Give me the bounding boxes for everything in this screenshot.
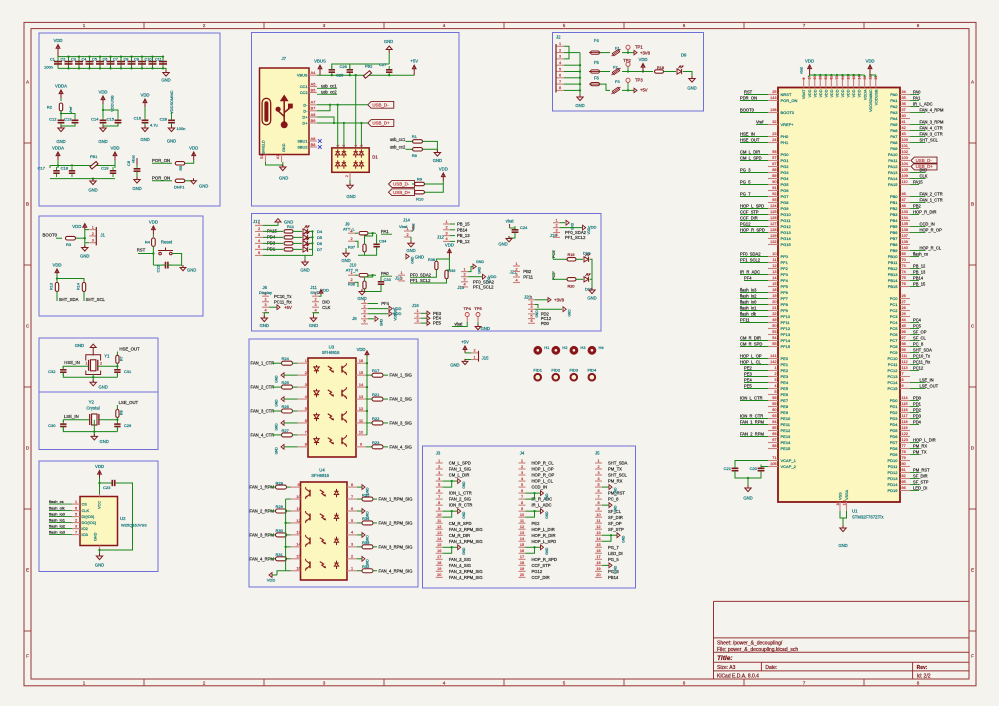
svg-text:R24: R24 — [282, 356, 290, 361]
svg-text:7: 7 — [559, 80, 561, 84]
svg-text:HOP_R_OP: HOP_R_OP — [920, 227, 943, 232]
svg-text:PC14: PC14 — [887, 380, 898, 385]
svg-text:74: 74 — [902, 270, 906, 274]
svg-text:137: 137 — [902, 234, 908, 238]
svg-text:R23: R23 — [372, 440, 380, 445]
svg-text:PB3: PB3 — [890, 212, 898, 217]
svg-text:GND: GND — [167, 139, 176, 144]
svg-text:2: 2 — [559, 48, 561, 52]
svg-text:13: 13 — [596, 531, 600, 535]
svg-text:GND: GND — [415, 254, 424, 259]
svg-text:8: 8 — [597, 501, 599, 505]
svg-text:PG14: PG14 — [781, 236, 792, 241]
svg-text:W25Q16JVSS: W25Q16JVSS — [121, 523, 147, 528]
svg-text:LSE_OUT: LSE_OUT — [119, 400, 139, 405]
svg-text:GND: GND — [498, 242, 507, 247]
svg-text:2: 2 — [416, 314, 418, 318]
svg-text:VDD: VDD — [140, 93, 149, 98]
svg-text:3: 3 — [597, 471, 599, 475]
svg-text:PE14: PE14 — [781, 440, 792, 445]
svg-text:CM_R_SPD: CM_R_SPD — [449, 521, 472, 526]
svg-text:PC6: PC6 — [890, 332, 899, 337]
svg-text:SFH6916: SFH6916 — [311, 473, 329, 478]
svg-text:PG11: PG11 — [781, 218, 792, 223]
svg-text:12: 12 — [437, 525, 441, 529]
svg-text:PG12: PG12 — [740, 221, 751, 226]
svg-text:R38: R38 — [428, 258, 435, 262]
svg-text:D7: D7 — [317, 247, 323, 252]
svg-text:H1: H1 — [544, 345, 550, 350]
svg-text:22: 22 — [772, 312, 776, 316]
svg-text:PB0: PB0 — [890, 194, 898, 199]
svg-text:PE2: PE2 — [532, 521, 541, 526]
svg-text:R30: R30 — [276, 528, 284, 533]
svg-text:29: 29 — [902, 312, 906, 316]
svg-text:8: 8 — [351, 483, 353, 487]
svg-text:J2: J2 — [556, 35, 561, 40]
svg-text:A7: A7 — [311, 101, 316, 105]
svg-text:D-: D- — [303, 108, 308, 113]
svg-text:65: 65 — [772, 426, 776, 430]
svg-text:60: 60 — [772, 408, 776, 412]
svg-text:TP5: TP5 — [474, 306, 482, 311]
svg-text:J7: J7 — [282, 56, 287, 61]
svg-text:C29: C29 — [124, 423, 132, 428]
svg-text:vbat: vbat — [455, 322, 464, 327]
svg-text:3: 3 — [515, 273, 517, 277]
svg-text:133: 133 — [902, 210, 908, 214]
svg-text:C4: C4 — [82, 57, 87, 61]
svg-text:GND: GND — [462, 481, 466, 489]
svg-text:F1: F1 — [615, 46, 620, 51]
svg-text:1: 1 — [85, 362, 87, 366]
svg-text:PC12: PC12 — [913, 365, 924, 370]
svg-text:4: 4 — [443, 23, 446, 28]
svg-text:PC11: PC11 — [888, 362, 898, 367]
svg-text:C25: C25 — [336, 73, 344, 78]
svg-text:10: 10 — [772, 252, 776, 256]
svg-text:Date:: Date: — [765, 665, 777, 671]
svg-text:FAN_3_RPM_SIG: FAN_3_RPM_SIG — [379, 544, 413, 549]
svg-text:126: 126 — [770, 216, 776, 220]
svg-text:28: 28 — [902, 306, 906, 310]
svg-text:PA12: PA12 — [888, 164, 898, 169]
svg-text:18: 18 — [437, 561, 441, 565]
svg-text:3: 3 — [463, 278, 465, 282]
svg-text:35: 35 — [902, 96, 906, 100]
svg-text:37: 37 — [902, 108, 906, 112]
svg-text:8: 8 — [305, 443, 307, 447]
svg-text:+5V: +5V — [640, 88, 648, 93]
svg-text:1: 1 — [83, 681, 86, 686]
svg-text:27: 27 — [902, 300, 906, 304]
svg-text:ION_R_CTR: ION_R_CTR — [740, 413, 763, 418]
svg-text:PB7: PB7 — [890, 236, 898, 241]
svg-text:GND: GND — [140, 137, 149, 142]
svg-text:PD5: PD5 — [890, 428, 899, 433]
svg-text:usb_cc2: usb_cc2 — [390, 145, 406, 150]
svg-text:GND: GND — [687, 86, 696, 91]
svg-text:IR_L_ADC: IR_L_ADC — [913, 101, 933, 106]
svg-text:SF_STP: SF_STP — [608, 527, 624, 532]
svg-text:HSE_OUT: HSE_OUT — [740, 137, 760, 142]
svg-text:VDD: VDD — [830, 89, 834, 97]
svg-text:GND: GND — [481, 326, 490, 331]
svg-text:PF11: PF11 — [523, 275, 533, 280]
svg-text:4: 4 — [515, 278, 517, 282]
svg-text:19: 19 — [520, 567, 524, 571]
svg-text:PB2: PB2 — [523, 269, 532, 274]
svg-text:Vref: Vref — [756, 119, 764, 124]
svg-text:C18: C18 — [61, 166, 69, 171]
svg-text:J16: J16 — [412, 303, 420, 308]
svg-text:B8: B8 — [311, 143, 316, 147]
svg-text:42: 42 — [902, 126, 906, 130]
svg-text:+5V: +5V — [284, 305, 292, 310]
svg-text:PF12: PF12 — [781, 326, 791, 331]
svg-text:PB14: PB14 — [457, 227, 468, 232]
svg-text:C28: C28 — [160, 117, 168, 122]
svg-text:flash_cs: flash_cs — [913, 251, 928, 256]
svg-text:GND: GND — [622, 535, 626, 543]
svg-text:U1: U1 — [852, 509, 858, 514]
svg-text:18: 18 — [772, 288, 776, 292]
svg-text:PA10: PA10 — [888, 152, 898, 157]
svg-text:DO(IO1): DO(IO1) — [82, 520, 97, 525]
svg-text:PF8: PF8 — [781, 302, 789, 307]
svg-text:16: 16 — [596, 549, 600, 553]
svg-text:GND: GND — [279, 176, 288, 181]
svg-text:GND: GND — [95, 563, 104, 568]
svg-text:6: 6 — [530, 319, 532, 323]
svg-text:CM_L_SPD: CM_L_SPD — [449, 461, 471, 466]
svg-text:62: 62 — [830, 76, 834, 80]
svg-text:VDDSDMMC: VDDSDMMC — [869, 89, 873, 112]
svg-text:4: 4 — [354, 145, 358, 147]
svg-text:VDD: VDD — [805, 59, 814, 64]
svg-text:CCF_STP: CCF_STP — [532, 563, 551, 568]
svg-text:D9: D9 — [681, 53, 687, 58]
svg-text:PB11: PB11 — [888, 260, 898, 265]
svg-text:5: 5 — [563, 681, 566, 686]
svg-text:CLK: CLK — [322, 305, 330, 310]
svg-text:F4: F4 — [594, 38, 600, 43]
svg-text:F2: F2 — [613, 65, 618, 70]
svg-text:19: 19 — [596, 567, 600, 571]
svg-text:111: 111 — [902, 354, 908, 358]
svg-text:96: 96 — [902, 330, 906, 334]
svg-text:10: 10 — [520, 513, 524, 517]
svg-text:106: 106 — [770, 462, 776, 466]
svg-text:20: 20 — [520, 573, 524, 577]
svg-text:3: 3 — [258, 233, 260, 237]
svg-text:2: 2 — [203, 681, 206, 686]
svg-text:FAN_1_CTR: FAN_1_CTR — [251, 361, 275, 366]
svg-text:PD7: PD7 — [890, 440, 899, 445]
svg-text:138: 138 — [770, 108, 776, 112]
svg-text:flash_io2: flash_io2 — [49, 524, 66, 529]
svg-text:PD10: PD10 — [887, 458, 898, 463]
svg-text:PE12: PE12 — [781, 428, 792, 433]
svg-text:9: 9 — [297, 483, 299, 487]
svg-text:98: 98 — [902, 342, 906, 346]
svg-text:PA13: PA13 — [888, 170, 898, 175]
svg-text:File: power_&_decoupling.kicad: File: power_&_decoupling.kicad_sch — [717, 647, 798, 653]
svg-text:H4: H4 — [598, 345, 604, 350]
svg-text:3: 3 — [351, 543, 353, 547]
svg-text:PD4: PD4 — [913, 419, 922, 424]
svg-text:2: 2 — [351, 555, 353, 559]
svg-text:16: 16 — [359, 359, 363, 363]
svg-text:12: 12 — [596, 525, 600, 529]
svg-text:1: 1 — [264, 292, 266, 296]
svg-text:PC1: PC1 — [890, 302, 899, 307]
svg-text:F3: F3 — [615, 79, 620, 84]
svg-text:R10: R10 — [416, 197, 424, 202]
svg-text:PA8: PA8 — [890, 140, 898, 145]
svg-text:SF_CL: SF_CL — [913, 335, 926, 340]
svg-text:113: 113 — [902, 366, 908, 370]
svg-text:PA15: PA15 — [888, 182, 898, 187]
svg-text:3: 3 — [264, 303, 266, 307]
svg-text:R36: R36 — [348, 283, 355, 287]
svg-text:PF4: PF4 — [781, 278, 789, 283]
svg-text:82: 82 — [902, 474, 906, 478]
svg-text:PG_5: PG_5 — [740, 179, 751, 184]
svg-text:12: 12 — [772, 264, 776, 268]
svg-text:PD3: PD3 — [913, 413, 922, 418]
svg-text:9: 9 — [902, 384, 904, 388]
svg-text:C27: C27 — [379, 62, 387, 67]
svg-text:FAN_1_RPM_SIG: FAN_1_RPM_SIG — [449, 539, 483, 544]
svg-text:vbat: vbat — [506, 219, 515, 224]
svg-text:R8: R8 — [120, 410, 124, 415]
svg-text:87: 87 — [772, 162, 776, 166]
svg-text:FAN_2_SIG: FAN_2_SIG — [449, 497, 471, 502]
svg-text:PC9: PC9 — [890, 350, 899, 355]
svg-text:FAN_4_SIG: FAN_4_SIG — [449, 563, 471, 568]
svg-text:PE5: PE5 — [744, 383, 752, 388]
svg-text:C13: C13 — [64, 117, 72, 122]
svg-text:HOP_L_OP: HOP_L_OP — [532, 467, 554, 472]
svg-text:PC12: PC12 — [887, 368, 898, 373]
svg-text:SBU1: SBU1 — [297, 139, 307, 144]
svg-text:PD13: PD13 — [887, 476, 898, 481]
svg-text:FAN_3_RPM_SIG: FAN_3_RPM_SIG — [449, 569, 483, 574]
svg-text:C34: C34 — [379, 238, 387, 243]
svg-text:D4: D4 — [317, 229, 323, 234]
svg-text:PE8: PE8 — [781, 404, 789, 409]
svg-text:15: 15 — [772, 282, 776, 286]
svg-text:PA15: PA15 — [913, 179, 923, 184]
svg-text:1: 1 — [400, 271, 402, 275]
svg-text:Crystal: Crystal — [86, 406, 99, 411]
svg-text:115: 115 — [902, 402, 908, 406]
svg-text:2: 2 — [305, 371, 307, 375]
svg-text:GND: GND — [275, 447, 279, 455]
svg-text:PC_8: PC_8 — [608, 497, 619, 502]
svg-text:HOP_R_DIR: HOP_R_DIR — [532, 533, 556, 538]
svg-text:7: 7 — [597, 495, 599, 499]
svg-text:5: 5 — [597, 483, 599, 487]
svg-text:flash_io0: flash_io0 — [740, 299, 757, 304]
svg-text:19: 19 — [437, 567, 441, 571]
svg-text:20: 20 — [596, 573, 600, 577]
svg-text:R21: R21 — [372, 392, 380, 397]
svg-text:6: 6 — [438, 489, 440, 493]
svg-text:R29: R29 — [276, 504, 284, 509]
svg-text:118: 118 — [902, 420, 908, 424]
svg-text:HOP_R_DIR: HOP_R_DIR — [913, 209, 936, 214]
svg-text:PE5: PE5 — [433, 321, 442, 326]
svg-text:VDD: VDD — [95, 464, 104, 469]
svg-text:4: 4 — [264, 309, 266, 313]
svg-text:CM_L_DIR: CM_L_DIR — [449, 473, 470, 478]
svg-text:140: 140 — [902, 246, 908, 250]
svg-text:114: 114 — [902, 396, 908, 400]
svg-text:PE9: PE9 — [781, 410, 789, 415]
svg-text:49: 49 — [772, 318, 776, 322]
svg-text:PF1_SCL2: PF1_SCL2 — [565, 235, 586, 240]
svg-text:PM_TX: PM_TX — [608, 467, 622, 472]
svg-text:DNF1: DNF1 — [174, 184, 185, 189]
svg-text:16: 16 — [520, 549, 524, 553]
svg-text:CM_L_SPD: CM_L_SPD — [740, 155, 762, 160]
svg-text:R33: R33 — [362, 540, 370, 545]
svg-text:119: 119 — [902, 426, 908, 430]
svg-text:125: 125 — [770, 210, 776, 214]
svg-text:3: 3 — [92, 239, 94, 243]
svg-text:D5: D5 — [317, 235, 323, 240]
svg-text:90: 90 — [772, 180, 776, 184]
svg-text:10: 10 — [296, 495, 300, 499]
svg-text:GND: GND — [275, 375, 279, 383]
svg-text:14: 14 — [437, 537, 441, 541]
svg-text:Title:: Title: — [717, 655, 733, 662]
svg-text:VDD: VDD — [53, 38, 62, 43]
svg-text:PB9: PB9 — [890, 248, 898, 253]
svg-text:Reset: Reset — [161, 240, 173, 245]
svg-text:VDD: VDD — [445, 243, 454, 248]
svg-text:1: 1 — [473, 355, 475, 359]
svg-text:PE6: PE6 — [781, 392, 789, 397]
svg-text:1: 1 — [406, 227, 408, 231]
svg-text:1: 1 — [350, 271, 352, 275]
svg-text:GND: GND — [275, 399, 279, 407]
svg-text:R32: R32 — [362, 564, 370, 569]
svg-text:SF_STP: SF_STP — [913, 479, 929, 484]
svg-text:HOP_L_SPD: HOP_L_SPD — [740, 203, 764, 208]
svg-text:VDD: VDD — [587, 227, 591, 234]
svg-text:2: 2 — [75, 518, 77, 522]
svg-text:PF4: PF4 — [744, 275, 752, 280]
svg-text:CM_R_SPD: CM_R_SPD — [740, 341, 762, 346]
svg-text:5: 5 — [305, 407, 307, 411]
svg-text:68: 68 — [772, 444, 776, 448]
svg-text:PA1: PA1 — [381, 229, 389, 234]
svg-text:PF1_SCL2: PF1_SCL2 — [473, 285, 494, 290]
svg-text:128: 128 — [770, 228, 776, 232]
svg-text:VCAP_1: VCAP_1 — [781, 458, 797, 463]
svg-text:VDD: VDD — [110, 146, 119, 151]
svg-text:5: 5 — [559, 67, 561, 71]
svg-text:D+: D+ — [302, 115, 308, 120]
svg-text:PG5: PG5 — [781, 182, 790, 187]
svg-text:73: 73 — [902, 264, 906, 268]
svg-text:12: 12 — [359, 407, 363, 411]
svg-text:J15: J15 — [482, 356, 490, 361]
svg-text:F6: F6 — [594, 76, 600, 81]
svg-text:57: 57 — [772, 156, 776, 160]
svg-text:PC2: PC2 — [890, 308, 899, 313]
svg-text:PG0: PG0 — [781, 152, 790, 157]
svg-text:PC_8: PC_8 — [913, 341, 924, 346]
svg-text:FAN_4_RPM_SIG: FAN_4_RPM_SIG — [449, 575, 483, 580]
svg-text:GND: GND — [100, 439, 109, 444]
svg-text:1: 1 — [559, 42, 561, 46]
svg-text:F: F — [26, 654, 29, 659]
svg-text:PD6: PD6 — [890, 434, 899, 439]
svg-text:VDD: VDD — [357, 347, 366, 352]
svg-text:R8: R8 — [412, 153, 418, 158]
svg-text:4: 4 — [445, 237, 447, 241]
svg-text:PC0: PC0 — [890, 296, 899, 301]
svg-text:52: 52 — [824, 76, 828, 80]
svg-text:2: 2 — [92, 232, 94, 236]
svg-text:HOP_R_SPD: HOP_R_SPD — [740, 227, 765, 232]
svg-text:14: 14 — [520, 537, 524, 541]
svg-text:2: 2 — [258, 227, 260, 231]
svg-text:GND: GND — [56, 139, 65, 144]
svg-text:2: 2 — [530, 300, 532, 304]
svg-text:Rev:: Rev: — [917, 665, 928, 671]
svg-text:PC7: PC7 — [890, 338, 899, 343]
svg-text:77: 77 — [902, 444, 906, 448]
svg-text:R26: R26 — [282, 404, 290, 409]
svg-text:PG_3: PG_3 — [740, 167, 751, 172]
svg-text:PM_RX: PM_RX — [913, 443, 927, 448]
svg-text:C19: C19 — [101, 166, 109, 171]
svg-text:FAN_4_CTR: FAN_4_CTR — [920, 125, 943, 130]
svg-text:VBAT: VBAT — [802, 89, 806, 99]
svg-text:PD4: PD4 — [890, 422, 899, 427]
svg-text:71: 71 — [772, 456, 776, 460]
svg-text:TP2: TP2 — [623, 58, 631, 63]
svg-text:R27: R27 — [282, 428, 290, 433]
svg-text:GND: GND — [743, 496, 752, 501]
svg-text:2: 2 — [264, 298, 266, 302]
svg-text:GND: GND — [199, 183, 208, 188]
svg-text:44: 44 — [902, 318, 906, 322]
svg-text:5: 5 — [258, 245, 260, 249]
svg-text:VDD: VDD — [836, 89, 840, 97]
svg-text:3: 3 — [323, 681, 326, 686]
svg-text:GND: GND — [300, 268, 309, 273]
svg-text:VDD: VDD — [858, 89, 862, 97]
svg-text:PC4: PC4 — [913, 317, 922, 322]
svg-text:12: 12 — [520, 525, 524, 529]
svg-text:GND: GND — [571, 222, 575, 230]
svg-text:FAN_2_SIG: FAN_2_SIG — [390, 397, 412, 402]
svg-text:14: 14 — [772, 276, 776, 280]
svg-text:PD9: PD9 — [890, 452, 899, 457]
svg-text:GND: GND — [568, 309, 572, 317]
svg-text:4: 4 — [559, 61, 561, 65]
svg-text:FID2: FID2 — [551, 368, 560, 373]
svg-text:GND: GND — [282, 143, 286, 152]
svg-text:PD8: PD8 — [890, 446, 899, 451]
svg-text:A5: A5 — [311, 82, 316, 86]
